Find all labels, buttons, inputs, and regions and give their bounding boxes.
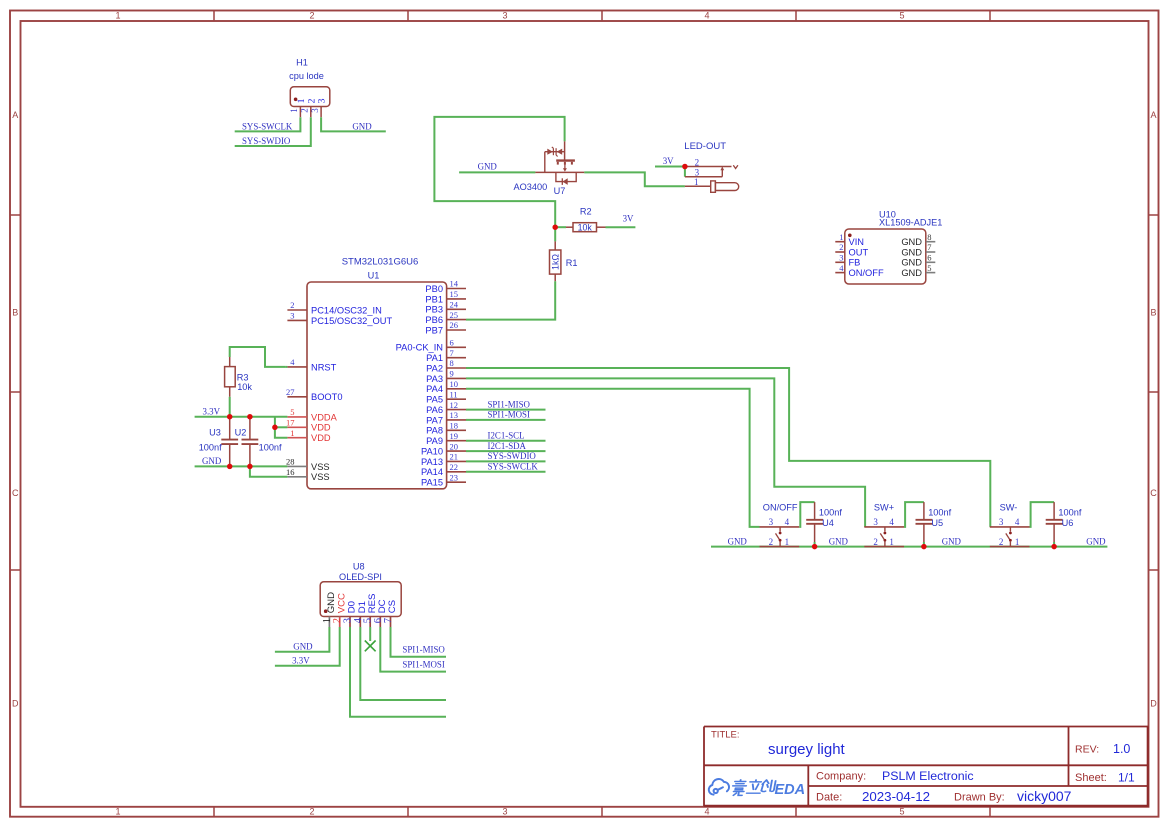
- svg-text:ON/OFF: ON/OFF: [849, 268, 884, 278]
- U10 pin 3 (FB): [835, 261, 845, 263]
- svg-text:14: 14: [450, 279, 459, 289]
- junction U5/GND: [921, 544, 927, 550]
- svg-text:GND: GND: [942, 536, 962, 546]
- svg-text:SPI1-MOSI: SPI1-MOSI: [402, 659, 444, 669]
- svg-text:20: 20: [450, 441, 459, 451]
- svg-text:SW-: SW-: [1000, 503, 1018, 513]
- resistor R2: [566, 226, 573, 228]
- U1 pin 13 (PA7): [447, 419, 466, 421]
- svg-text:PA5: PA5: [426, 395, 443, 405]
- wire U6 to GND rail: [1053, 542, 1055, 547]
- junction 3.3V/U2: [247, 414, 253, 420]
- resistor R3: [229, 357, 231, 367]
- wire U1 to net SPI1-MISO: [466, 409, 546, 411]
- svg-text:PB3: PB3: [425, 305, 443, 315]
- svg-text:A: A: [12, 110, 18, 120]
- svg-text:2023-04-12: 2023-04-12: [862, 789, 930, 804]
- H1 pin 2: [310, 107, 312, 118]
- U8 pin 5 (RES): [369, 617, 371, 628]
- wire U8 pin2 to 3.3V: [275, 627, 340, 666]
- svg-text:ON/OFF: ON/OFF: [763, 503, 798, 513]
- svg-text:U4: U4: [822, 518, 834, 528]
- svg-text:B: B: [12, 308, 18, 318]
- wire U8 pin3: [350, 627, 446, 717]
- U1 pin 28 (VSS): [287, 465, 307, 467]
- svg-text:16: 16: [286, 467, 295, 477]
- svg-text:2: 2: [309, 807, 314, 817]
- U1 pin 2 (PC14/OSC32_IN): [287, 309, 307, 311]
- wire U8 pin7 to SPI1-MISO: [391, 627, 447, 657]
- svg-text:10k: 10k: [578, 222, 593, 232]
- svg-text:SPI1-MOSI: SPI1-MOSI: [488, 410, 530, 420]
- junction GND/U2: [247, 464, 253, 470]
- svg-text:22: 22: [450, 462, 459, 472]
- U1 pin 18 (PA8): [447, 429, 466, 431]
- U1 pin 5 (VDDA): [287, 416, 307, 418]
- U1 pin 26 (PB7): [447, 329, 466, 331]
- svg-text:H1: H1: [296, 58, 308, 68]
- svg-text:6: 6: [927, 253, 931, 263]
- wire U1 to net SYS-SWDIO: [466, 460, 546, 462]
- U1 pin 6 (PA0-CK_IN): [447, 346, 466, 348]
- svg-text:PA15: PA15: [421, 478, 443, 488]
- capacitor U5: [923, 502, 925, 519]
- svg-text:PA4: PA4: [426, 384, 443, 394]
- U1 pin 14 (PB0): [447, 288, 466, 290]
- U1 pin 3 (PC15/OSC32_OUT): [287, 319, 307, 321]
- svg-text:3V: 3V: [663, 156, 674, 166]
- svg-text:19: 19: [450, 431, 459, 441]
- svg-text:U8: U8: [353, 562, 365, 572]
- svg-text:SYS-SWDIO: SYS-SWDIO: [488, 451, 537, 461]
- svg-text:OUT: OUT: [849, 247, 869, 257]
- svg-text:1: 1: [290, 428, 294, 438]
- svg-text:3: 3: [695, 168, 700, 178]
- no-connect X flag: [365, 641, 376, 652]
- wire PA3 to SW+: [466, 378, 865, 527]
- svg-text:VDDA: VDDA: [311, 412, 338, 422]
- svg-text:4: 4: [785, 517, 790, 527]
- svg-text:PA3: PA3: [426, 374, 443, 384]
- svg-text:PA0-CK_IN: PA0-CK_IN: [396, 343, 443, 353]
- wire U1 to net I2C1-SCL: [466, 440, 546, 442]
- U10 pin 2 (OUT): [835, 251, 845, 253]
- svg-text:A: A: [1150, 110, 1156, 120]
- svg-text:EDA: EDA: [775, 782, 806, 798]
- U1 pin 1 (VDD): [287, 437, 307, 439]
- wire loop from R1/R2 node to U7 drain: [434, 117, 564, 227]
- U1 pin 9 (PA3): [447, 377, 466, 379]
- svg-text:Company:: Company:: [816, 771, 866, 783]
- JLC EDA logo: [709, 779, 729, 795]
- wire U1 to net SPI1-MOSI: [466, 419, 546, 421]
- svg-text:I2C1-SDA: I2C1-SDA: [488, 441, 527, 451]
- svg-text:VSS: VSS: [311, 462, 330, 472]
- svg-text:SPI1-MISO: SPI1-MISO: [488, 399, 531, 409]
- svg-text:2: 2: [873, 537, 878, 547]
- svg-text:3: 3: [290, 311, 294, 321]
- svg-text:3: 3: [873, 517, 878, 527]
- U10 pin 6 (GND): [926, 261, 936, 263]
- svg-text:LED-OUT: LED-OUT: [684, 141, 726, 152]
- svg-text:3: 3: [769, 517, 774, 527]
- svg-text:12: 12: [450, 400, 459, 410]
- U1 pin 7 (PA1): [447, 357, 466, 359]
- svg-text:100nf: 100nf: [819, 508, 842, 518]
- switch SW+: [864, 526, 904, 528]
- svg-text:18: 18: [450, 421, 459, 431]
- U1 pin 24 (PB3): [447, 308, 466, 310]
- wire SW+ pin4 to capacitor U5: [904, 502, 924, 527]
- svg-text:PB1: PB1: [425, 294, 443, 304]
- svg-text:2: 2: [290, 300, 294, 310]
- resistor R1: [554, 241, 556, 250]
- svg-text:Sheet:: Sheet:: [1075, 772, 1107, 784]
- svg-text:U7: U7: [554, 186, 566, 196]
- U1 pin 12 (PA6): [447, 409, 466, 411]
- svg-text:C: C: [1150, 488, 1157, 498]
- svg-text:GND: GND: [293, 642, 313, 652]
- svg-text:3V: 3V: [623, 213, 634, 223]
- U10 pin 1 (VIN): [835, 241, 845, 243]
- svg-text:PA10: PA10: [421, 447, 443, 457]
- U1 pin 17 (VDD): [287, 426, 307, 428]
- U8 pin 7 (CS): [390, 617, 392, 628]
- svg-text:2: 2: [309, 11, 314, 21]
- U1 pin 16 (VSS): [287, 476, 307, 478]
- svg-text:10k: 10k: [237, 382, 252, 392]
- wire SW- pin4 to capacitor U6: [1030, 502, 1055, 527]
- H1 pin 1 marker dot: [294, 98, 298, 102]
- svg-text:3.3V: 3.3V: [203, 407, 221, 417]
- svg-text:8: 8: [927, 232, 931, 242]
- svg-text:7: 7: [383, 618, 394, 623]
- wire R3 to 3.3V rail: [229, 397, 231, 417]
- svg-text:3: 3: [502, 11, 507, 21]
- junction 3.3V/R3/U3: [227, 414, 233, 420]
- U10 pin 8 (GND): [926, 241, 936, 243]
- wire GND rail: [195, 465, 288, 467]
- svg-text:B: B: [1150, 308, 1156, 318]
- wire U8 pin5 no-connect: [369, 627, 371, 641]
- svg-text:3: 3: [310, 108, 320, 113]
- svg-text:GND: GND: [202, 456, 222, 466]
- junction GND/U3: [227, 464, 233, 470]
- svg-text:D: D: [12, 698, 19, 708]
- wire pin2 node to pin3: [684, 167, 686, 177]
- svg-text:PA1: PA1: [426, 353, 443, 363]
- svg-text:XL1509-ADJE1: XL1509-ADJE1: [879, 218, 942, 228]
- svg-text:PA7: PA7: [426, 415, 443, 425]
- svg-text:1/1: 1/1: [1118, 771, 1135, 785]
- svg-text:VDD: VDD: [311, 433, 331, 443]
- svg-text:GND: GND: [352, 121, 372, 131]
- svg-text:BOOT0: BOOT0: [311, 392, 343, 402]
- svg-text:2: 2: [999, 537, 1004, 547]
- IC U10 XL1509-ADJE1: [845, 229, 926, 284]
- wire ON/OFF pin4 to capacitor U4: [799, 502, 814, 527]
- svg-text:GND: GND: [829, 536, 849, 546]
- svg-text:100nf: 100nf: [1058, 508, 1081, 518]
- svg-text:4: 4: [290, 357, 295, 367]
- wire GND to U7: [459, 171, 535, 173]
- H1 pin 1: [299, 107, 301, 118]
- svg-text:Drawn By:: Drawn By:: [954, 792, 1005, 804]
- svg-text:3: 3: [317, 98, 328, 103]
- capacitor U6: [1053, 502, 1055, 519]
- svg-text:cpu lode: cpu lode: [289, 71, 324, 81]
- svg-text:23: 23: [450, 472, 459, 482]
- svg-text:1: 1: [889, 537, 894, 547]
- U8 pin 4 (D1): [359, 617, 361, 628]
- svg-text:R3: R3: [237, 372, 249, 382]
- U1 pin 25 (PB6): [447, 319, 466, 321]
- svg-text:AO3400: AO3400: [514, 182, 548, 192]
- svg-text:9: 9: [450, 369, 454, 379]
- svg-text:C: C: [12, 488, 19, 498]
- svg-text:3: 3: [502, 807, 507, 817]
- svg-text:GND: GND: [901, 258, 922, 268]
- svg-text:SW+: SW+: [874, 503, 894, 513]
- IC U1 STM32L031G6U6: [307, 282, 447, 489]
- wire U1 to net SYS-SWCLK: [466, 471, 546, 473]
- svg-text:3: 3: [839, 253, 843, 263]
- svg-text:2: 2: [839, 242, 843, 252]
- junction VDD pin17: [272, 425, 278, 431]
- svg-text:PC15/OSC32_OUT: PC15/OSC32_OUT: [311, 316, 392, 326]
- switch SW-: [990, 526, 1030, 528]
- svg-text:7: 7: [450, 348, 454, 358]
- U1 pin 4 (NRST): [287, 366, 307, 368]
- U1 pin 23 (PA15): [447, 481, 466, 483]
- U1 pin 15 (PB1): [447, 298, 466, 300]
- svg-text:PC14/OSC32_IN: PC14/OSC32_IN: [311, 305, 382, 315]
- svg-text:17: 17: [286, 418, 295, 428]
- U1 pin 27 (BOOT0): [287, 396, 307, 398]
- U8 pin 6 (DC): [379, 617, 381, 628]
- svg-text:11: 11: [450, 389, 458, 399]
- wire U8 pin1 to GND: [275, 627, 330, 652]
- svg-text:24: 24: [450, 300, 459, 310]
- capacitor U4: [814, 502, 816, 519]
- wire H1 pin3 to GND: [321, 117, 386, 131]
- svg-text:PA8: PA8: [426, 426, 443, 436]
- H1 pin 3: [320, 107, 322, 118]
- svg-text:1: 1: [115, 807, 120, 817]
- U1 pin 8 (PA2): [447, 367, 466, 369]
- wire H1 pin1 to SYS-SWCLK: [235, 117, 301, 131]
- svg-text:GND: GND: [901, 247, 922, 257]
- svg-text:1: 1: [1015, 537, 1020, 547]
- svg-text:GND: GND: [901, 237, 922, 247]
- wire GND rail (switches): [711, 546, 1107, 548]
- svg-text:PA9: PA9: [426, 436, 443, 446]
- svg-text:SYS-SWCLK: SYS-SWCLK: [488, 462, 539, 472]
- junction LED-OUT pin2: [682, 164, 688, 170]
- svg-text:R1: R1: [566, 258, 578, 268]
- U10 pin 1 marker dot: [848, 234, 852, 238]
- wire PA2 to SW-: [466, 368, 990, 527]
- U1 pin 22 (PA14): [447, 471, 466, 473]
- connector U8 OLED-SPI: [320, 582, 401, 617]
- svg-text:R2: R2: [580, 206, 592, 216]
- svg-text:8: 8: [450, 358, 454, 368]
- junction U6/GND: [1051, 544, 1057, 550]
- junction R1/R2 node: [552, 224, 558, 230]
- wire U8 pin4: [360, 627, 446, 700]
- svg-text:5: 5: [899, 11, 904, 21]
- wire U5 to GND rail: [923, 542, 925, 547]
- svg-text:STM32L031G6U6: STM32L031G6U6: [342, 257, 419, 268]
- svg-text:VDD: VDD: [311, 423, 331, 433]
- svg-text:4: 4: [1015, 517, 1020, 527]
- U1 pin 20 (PA10): [447, 450, 466, 452]
- U10 pin 7 (GND): [926, 251, 936, 253]
- svg-text:GND: GND: [728, 536, 748, 546]
- svg-text:SYS-SWCLK: SYS-SWCLK: [242, 121, 293, 131]
- svg-text:1: 1: [839, 232, 843, 242]
- svg-text:1kΩ: 1kΩ: [550, 254, 560, 270]
- svg-text:1: 1: [115, 11, 120, 21]
- U1 pin 21 (PA13): [447, 460, 466, 462]
- svg-text:PSLM Electronic: PSLM Electronic: [882, 769, 974, 783]
- svg-text:5: 5: [290, 407, 294, 417]
- capacitor U2: [249, 417, 251, 440]
- svg-text:100nf: 100nf: [928, 508, 951, 518]
- U8 pin 2 (VCC): [339, 617, 341, 628]
- svg-text:FB: FB: [849, 258, 861, 268]
- svg-text:vicky007: vicky007: [1017, 788, 1072, 804]
- svg-text:U1: U1: [368, 271, 380, 281]
- svg-text:28: 28: [286, 457, 295, 467]
- transistor U7 AO3400: [535, 141, 584, 185]
- svg-text:5: 5: [927, 263, 931, 273]
- U1 pin 10 (PA4): [447, 388, 466, 390]
- U10 pin 5 (GND): [926, 272, 936, 274]
- svg-text:3.3V: 3.3V: [292, 656, 310, 666]
- svg-text:1: 1: [289, 108, 299, 113]
- svg-text:REV:: REV:: [1075, 744, 1099, 756]
- svg-text:2: 2: [300, 108, 310, 113]
- title block: [704, 727, 1149, 807]
- wire GND to VSS pin16: [250, 466, 288, 476]
- svg-text:VSS: VSS: [311, 472, 330, 482]
- svg-text:PA14: PA14: [421, 467, 443, 477]
- U1 pin 11 (PA5): [447, 398, 466, 400]
- svg-text:1: 1: [785, 537, 790, 547]
- svg-text:VIN: VIN: [849, 237, 865, 247]
- svg-text:2: 2: [695, 157, 700, 167]
- svg-text:GND: GND: [901, 268, 922, 278]
- connector H1: [290, 87, 330, 107]
- svg-text:I2C1-SCL: I2C1-SCL: [488, 431, 525, 441]
- wire R1 to PB6: [466, 281, 555, 319]
- svg-text:7: 7: [927, 242, 931, 252]
- svg-text:SYS-SWDIO: SYS-SWDIO: [242, 136, 291, 146]
- svg-text:27: 27: [286, 387, 295, 397]
- svg-text:PB0: PB0: [425, 284, 443, 294]
- svg-text:25: 25: [450, 310, 459, 320]
- svg-text:GND: GND: [478, 161, 498, 171]
- wire U4 to GND rail: [814, 542, 816, 547]
- svg-text:U2: U2: [235, 427, 247, 437]
- svg-text:U5: U5: [931, 518, 943, 528]
- wire U8 pin6 to SPI1-MOSI: [380, 627, 446, 672]
- wire 3.3V rail: [195, 416, 288, 418]
- svg-text:1: 1: [296, 98, 307, 103]
- svg-text:U6: U6: [1062, 518, 1074, 528]
- U1 pin 19 (PA9): [447, 440, 466, 442]
- svg-text:13: 13: [450, 410, 459, 420]
- wire U7 to LED-OUT pin1: [584, 172, 685, 186]
- svg-text:10: 10: [450, 379, 459, 389]
- U8 pin 3 (D0): [349, 617, 351, 628]
- U8 pin 1 marker dot: [324, 609, 328, 613]
- svg-text:surgey light: surgey light: [768, 741, 846, 758]
- svg-text:6: 6: [450, 338, 454, 348]
- wire node to R2: [555, 226, 566, 228]
- svg-text:GND: GND: [1086, 536, 1106, 546]
- wire PA4 to ON/OFF: [466, 389, 760, 527]
- svg-text:4: 4: [839, 263, 844, 273]
- svg-text:U3: U3: [209, 427, 221, 437]
- svg-text:4: 4: [889, 517, 894, 527]
- svg-text:5: 5: [899, 807, 904, 817]
- wire 3V to LED-OUT pin2: [655, 166, 685, 168]
- svg-text:100nf: 100nf: [199, 443, 222, 453]
- svg-text:SPI1-MISO: SPI1-MISO: [402, 645, 445, 655]
- U10 pin 4 (ON/OFF): [835, 272, 845, 274]
- svg-text:PA2: PA2: [426, 363, 443, 373]
- wire 3.3V to VDD pins: [275, 417, 288, 438]
- svg-text:2: 2: [769, 537, 774, 547]
- wire H1 pin2 to SYS-SWDIO: [235, 117, 311, 146]
- svg-text:21: 21: [450, 452, 459, 462]
- capacitor U3: [229, 417, 231, 440]
- svg-text:D: D: [1150, 698, 1157, 708]
- svg-text:NRST: NRST: [311, 362, 337, 372]
- svg-text:4: 4: [704, 807, 709, 817]
- svg-text:CS: CS: [387, 600, 398, 613]
- U8 pin 1 (GND): [328, 617, 330, 628]
- svg-text:PA13: PA13: [421, 457, 443, 467]
- wire NRST to R3: [230, 347, 285, 367]
- svg-text:3: 3: [999, 517, 1004, 527]
- svg-text:Date:: Date:: [816, 792, 842, 804]
- svg-text:4: 4: [704, 11, 709, 21]
- svg-text:OLED-SPI: OLED-SPI: [339, 572, 382, 582]
- svg-text:PA6: PA6: [426, 405, 443, 415]
- wire R2 to 3V: [606, 226, 636, 228]
- wire node to R1: [554, 227, 556, 241]
- wire U1 to net I2C1-SDA: [466, 450, 546, 452]
- svg-text:1: 1: [694, 177, 699, 187]
- svg-text:PB6: PB6: [425, 315, 443, 325]
- switch ON/OFF: [760, 526, 800, 528]
- svg-text:TITLE:: TITLE:: [711, 730, 740, 741]
- connector LED-OUT: [685, 165, 739, 192]
- svg-text:1.0: 1.0: [1113, 742, 1130, 756]
- svg-text:100nf: 100nf: [259, 443, 282, 453]
- svg-text:PB7: PB7: [425, 325, 443, 335]
- svg-text:15: 15: [450, 289, 459, 299]
- junction U4/GND: [812, 544, 818, 550]
- svg-text:26: 26: [450, 320, 459, 330]
